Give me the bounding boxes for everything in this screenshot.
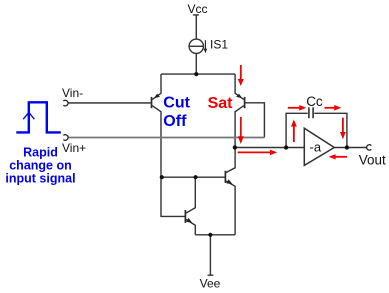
svg-text:Off: Off bbox=[163, 113, 187, 130]
svg-text:Vee: Vee bbox=[200, 276, 221, 290]
svg-text:Cut: Cut bbox=[163, 95, 190, 112]
svg-text:change on: change on bbox=[9, 159, 72, 173]
svg-text:IS1: IS1 bbox=[210, 37, 228, 51]
svg-text:Vout: Vout bbox=[359, 153, 386, 168]
svg-text:Rapid: Rapid bbox=[23, 145, 58, 159]
svg-text:Sat: Sat bbox=[208, 95, 234, 112]
svg-text:Vcc: Vcc bbox=[187, 2, 207, 16]
svg-text:-a: -a bbox=[310, 139, 322, 154]
svg-text:input signal: input signal bbox=[5, 172, 75, 186]
svg-text:Cc: Cc bbox=[306, 94, 323, 109]
svg-text:Vin-: Vin- bbox=[62, 86, 83, 100]
svg-text:Vin+: Vin+ bbox=[62, 141, 86, 155]
